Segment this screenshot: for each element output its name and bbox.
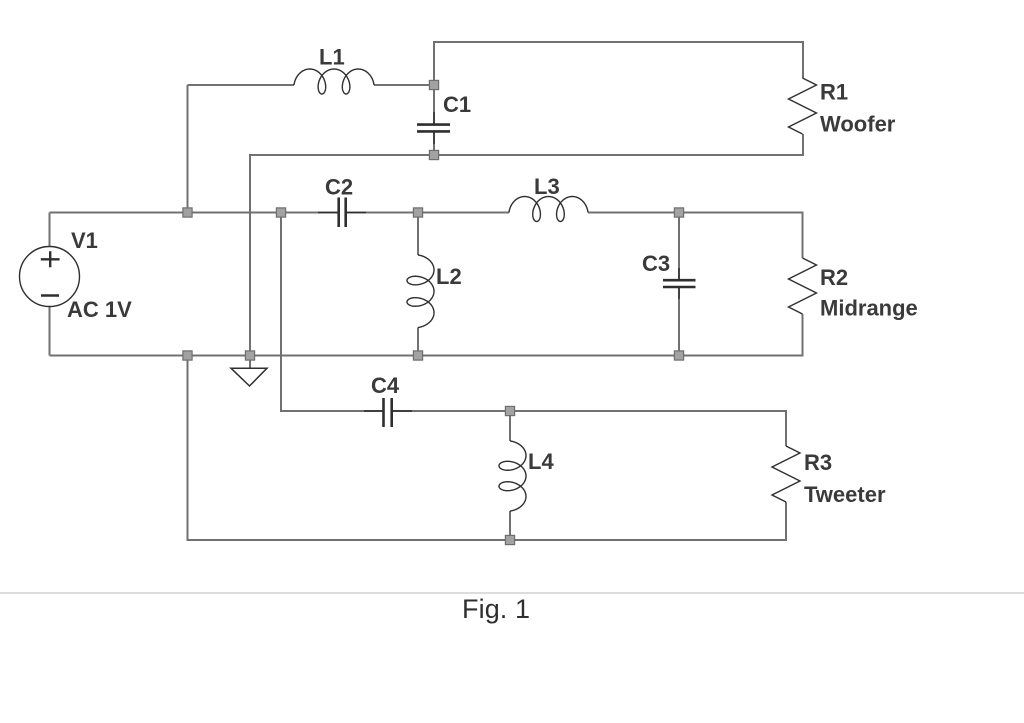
svg-text:L3: L3 <box>534 174 560 199</box>
svg-text:R2: R2 <box>820 265 848 290</box>
svg-text:C4: C4 <box>371 373 400 398</box>
svg-text:R1: R1 <box>820 80 848 105</box>
svg-text:C3: C3 <box>642 251 670 276</box>
svg-text:Fig. 1: Fig. 1 <box>462 594 530 624</box>
svg-text:Midrange: Midrange <box>820 296 918 321</box>
svg-text:L4: L4 <box>528 449 554 474</box>
svg-text:C1: C1 <box>443 92 471 117</box>
svg-text:AC 1V: AC 1V <box>67 297 132 322</box>
svg-text:C2: C2 <box>325 175 353 200</box>
svg-text:L2: L2 <box>436 264 462 289</box>
svg-text:Woofer: Woofer <box>820 112 896 137</box>
svg-text:V1: V1 <box>71 228 98 253</box>
svg-text:R3: R3 <box>804 450 832 475</box>
svg-text:Tweeter: Tweeter <box>804 482 886 507</box>
svg-text:L1: L1 <box>319 45 345 70</box>
